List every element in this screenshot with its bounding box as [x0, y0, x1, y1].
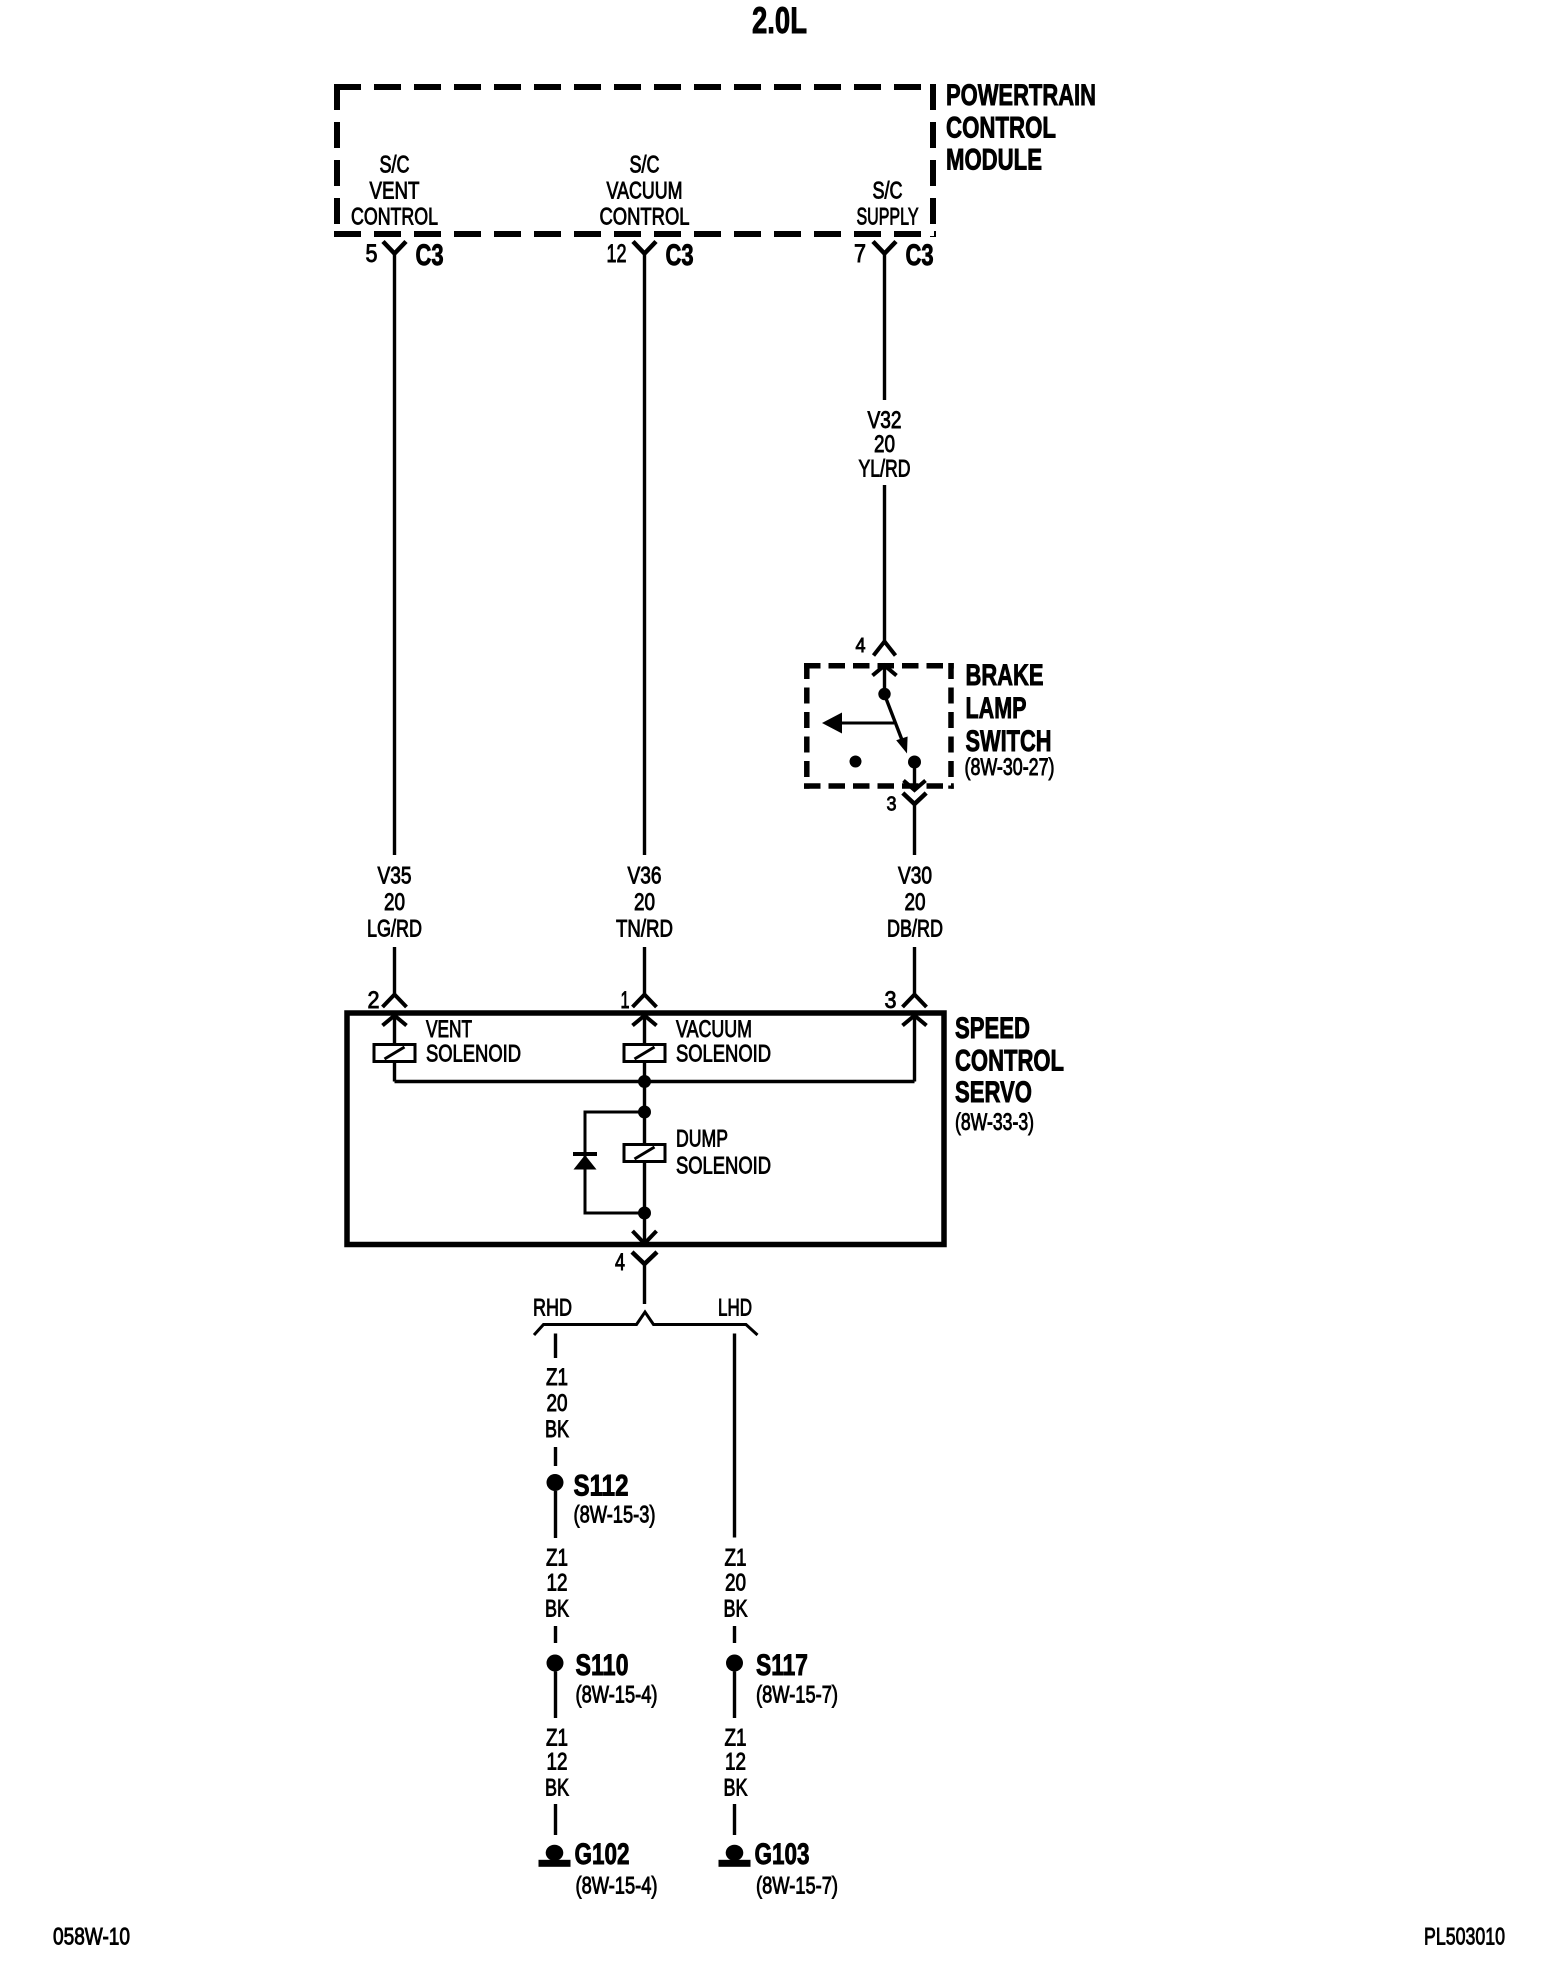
- svg-text:SOLENOID: SOLENOID: [426, 1041, 521, 1068]
- svg-text:5: 5: [366, 240, 378, 268]
- svg-text:4: 4: [615, 1249, 625, 1276]
- svg-text:VACUUM: VACUUM: [607, 178, 683, 205]
- svg-text:BK: BK: [545, 1416, 569, 1443]
- svg-text:Z1: Z1: [546, 1364, 568, 1391]
- svg-text:SOLENOID: SOLENOID: [676, 1041, 771, 1068]
- svg-text:BK: BK: [545, 1775, 569, 1802]
- svg-text:CONTROL: CONTROL: [351, 204, 438, 231]
- svg-text:POWERTRAIN: POWERTRAIN: [946, 79, 1096, 112]
- svg-text:(8W-15-4): (8W-15-4): [576, 1682, 658, 1709]
- svg-text:TN/RD: TN/RD: [616, 916, 673, 943]
- svg-text:BK: BK: [724, 1596, 748, 1623]
- svg-text:CONTROL: CONTROL: [600, 204, 690, 231]
- svg-text:3: 3: [887, 794, 897, 816]
- svg-text:058W-10: 058W-10: [53, 1924, 130, 1951]
- svg-text:S/C: S/C: [380, 152, 410, 179]
- svg-text:DB/RD: DB/RD: [887, 916, 943, 943]
- svg-text:BK: BK: [545, 1596, 569, 1623]
- svg-text:7: 7: [854, 240, 866, 268]
- svg-text:LAMP: LAMP: [966, 692, 1027, 725]
- svg-text:S/C: S/C: [630, 152, 660, 179]
- svg-text:3: 3: [885, 987, 897, 1014]
- svg-text:20: 20: [725, 1570, 746, 1597]
- svg-text:(8W-15-7): (8W-15-7): [756, 1873, 838, 1900]
- svg-text:C3: C3: [906, 239, 934, 272]
- svg-text:V32: V32: [868, 407, 902, 434]
- svg-text:Z1: Z1: [546, 1725, 568, 1752]
- svg-text:V30: V30: [898, 863, 932, 890]
- svg-text:V36: V36: [628, 863, 662, 890]
- svg-text:VENT: VENT: [426, 1016, 472, 1043]
- svg-text:LHD: LHD: [718, 1295, 752, 1322]
- svg-text:SPEED: SPEED: [955, 1012, 1030, 1045]
- svg-text:20: 20: [874, 431, 895, 458]
- svg-text:C3: C3: [416, 239, 444, 272]
- svg-text:(8W-15-3): (8W-15-3): [574, 1502, 656, 1529]
- svg-text:BK: BK: [724, 1775, 748, 1802]
- svg-text:20: 20: [384, 889, 405, 916]
- svg-text:MODULE: MODULE: [946, 144, 1042, 177]
- svg-text:1: 1: [621, 987, 630, 1014]
- svg-text:PL503010: PL503010: [1424, 1924, 1505, 1951]
- svg-text:Z1: Z1: [725, 1725, 747, 1752]
- svg-text:12: 12: [547, 1570, 568, 1597]
- svg-text:YL/RD: YL/RD: [859, 456, 911, 483]
- svg-text:(8W-15-7): (8W-15-7): [756, 1682, 838, 1709]
- svg-text:2.0L: 2.0L: [752, 0, 807, 41]
- svg-text:DUMP: DUMP: [676, 1126, 728, 1153]
- svg-text:SOLENOID: SOLENOID: [676, 1153, 771, 1180]
- svg-text:S112: S112: [574, 1470, 629, 1503]
- svg-text:12: 12: [725, 1749, 746, 1776]
- svg-text:CONTROL: CONTROL: [955, 1045, 1064, 1078]
- svg-text:20: 20: [547, 1390, 568, 1417]
- svg-text:C3: C3: [666, 239, 694, 272]
- svg-text:V35: V35: [378, 863, 412, 890]
- svg-text:20: 20: [905, 889, 926, 916]
- svg-text:G103: G103: [755, 1838, 810, 1871]
- svg-text:S/C: S/C: [873, 178, 903, 205]
- svg-text:SERVO: SERVO: [955, 1076, 1032, 1109]
- svg-text:SUPPLY: SUPPLY: [857, 204, 919, 231]
- svg-text:Z1: Z1: [546, 1545, 568, 1572]
- svg-text:(8W-15-4): (8W-15-4): [576, 1873, 658, 1900]
- svg-text:S117: S117: [756, 1649, 808, 1682]
- svg-text:(8W-33-3): (8W-33-3): [955, 1109, 1034, 1136]
- svg-text:Z1: Z1: [725, 1545, 747, 1572]
- svg-text:LG/RD: LG/RD: [367, 916, 422, 943]
- svg-text:BRAKE: BRAKE: [966, 659, 1044, 692]
- svg-text:VENT: VENT: [370, 178, 420, 205]
- svg-text:S110: S110: [576, 1649, 629, 1682]
- svg-text:12: 12: [607, 240, 627, 268]
- svg-text:2: 2: [368, 987, 380, 1014]
- svg-text:20: 20: [634, 889, 655, 916]
- svg-text:RHD: RHD: [533, 1295, 572, 1322]
- svg-text:4: 4: [856, 635, 866, 657]
- svg-text:G102: G102: [575, 1838, 630, 1871]
- svg-text:VACUUM: VACUUM: [676, 1016, 752, 1043]
- svg-text:(8W-30-27): (8W-30-27): [965, 754, 1055, 781]
- svg-text:12: 12: [547, 1749, 568, 1776]
- svg-text:CONTROL: CONTROL: [946, 112, 1056, 145]
